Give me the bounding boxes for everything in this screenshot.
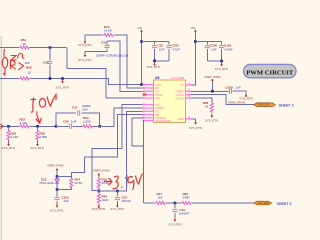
power VIN 1 <box>137 26 143 34</box>
node R38 tap <box>36 125 39 128</box>
ground R38 <box>31 142 44 150</box>
node C34 tap <box>116 190 119 193</box>
U9 left pin stubs <box>143 85 154 121</box>
wire VIN2 rail <box>195 41 221 43</box>
svg-text:50V: 50V <box>83 108 88 112</box>
svg-text:1.21K: 1.21K <box>20 121 28 125</box>
resistor R19 <box>97 177 109 191</box>
wire R82 to tag <box>192 202 254 204</box>
wire pin SHUTDOWN long vertical <box>143 121 144 203</box>
U9 right pin stubs <box>186 85 192 119</box>
svg-text:U9: U9 <box>155 76 159 80</box>
resistor R22 <box>19 118 30 128</box>
capacitor C34 <box>115 191 131 204</box>
svg-text:1.00K: 1.00K <box>83 120 91 124</box>
off-page tag CUR_SENSE <box>254 201 272 205</box>
wire R17 to R82 <box>166 202 181 204</box>
node C33 tap <box>174 202 177 205</box>
svg-text:OUT B: OUT B <box>176 96 184 100</box>
power VIN 2 <box>191 26 197 34</box>
resistor R28 <box>19 65 32 80</box>
wire pin SD fan <box>71 115 142 177</box>
node bypass rail 2 gnd <box>220 60 223 63</box>
wire VC pin riser <box>191 84 195 86</box>
svg-text:4.99K: 4.99K <box>40 135 48 139</box>
wire main to COMP pin <box>93 108 143 126</box>
wire pin COSLIM jog <box>132 118 144 146</box>
label PWM_DRIVE <box>228 101 246 105</box>
node VIN1 pin1 <box>140 83 143 86</box>
svg-text:.1UF: .1UF <box>210 47 217 51</box>
node VIN1 rail <box>140 40 143 43</box>
svg-text:SHEET 2: SHEET 2 <box>279 103 294 107</box>
node top-C36 <box>49 46 52 49</box>
svg-text:SHUTDOWN: SHUTDOWN <box>155 119 171 123</box>
svg-text:PWM_DRIVE: PWM_DRIVE <box>228 101 246 105</box>
svg-text:100PF CCR09CG101J9: 100PF CCR09CG101J9 <box>96 54 129 58</box>
resistor R30 <box>82 116 93 128</box>
svg-text:.1UF: .1UF <box>63 199 70 203</box>
svg-text:UCC2808: UCC2808 <box>171 76 185 80</box>
svg-text:*VIN: *VIN <box>155 83 161 87</box>
svg-text:1000PF: 1000PF <box>179 211 190 215</box>
feedback node 2 <box>98 125 101 128</box>
op-amp U1 PWM controller U9 body <box>154 76 186 122</box>
svg-text:SYS_RTN: SYS_RTN <box>78 58 91 62</box>
svg-text:SHEET 3: SHEET 3 <box>277 202 292 206</box>
capacitor C106 <box>205 42 218 62</box>
svg-text:C39: C39 <box>63 120 69 124</box>
svg-text:SYS_RTN: SYS_RTN <box>50 208 63 212</box>
svg-text:CUR_SNS: CUR_SNS <box>257 202 269 205</box>
wire D12 bottom rail <box>57 188 71 190</box>
capacitor C36 <box>25 48 53 79</box>
page border left <box>0 36 2 240</box>
resistor R54 <box>70 177 83 188</box>
wire pin CS- fan <box>92 105 142 191</box>
svg-text:VIN: VIN <box>137 26 142 30</box>
svg-text:CS+: CS+ <box>155 96 161 100</box>
ground bypass rail 1 <box>147 62 160 69</box>
wire R22 to node <box>30 125 56 127</box>
svg-text:1.21K: 1.21K <box>11 135 19 139</box>
svg-text:R28: R28 <box>26 65 32 69</box>
wire top rail to R53 <box>0 47 19 49</box>
svg-text:PWM_DRV: PWM_DRV <box>258 104 271 107</box>
off-page tag PWM_DRV <box>254 103 275 107</box>
svg-text:SYS_RTN: SYS_RTN <box>31 146 44 150</box>
svg-text:SYS_RTN: SYS_RTN <box>147 65 160 69</box>
wire C108 to ground <box>233 91 246 93</box>
svg-text:10: 10 <box>23 42 27 46</box>
U9 right pin numbers <box>188 84 191 120</box>
ground bypass rail 2 <box>215 62 228 71</box>
svg-text:240K: 240K <box>183 195 190 199</box>
wire VIN2 down to VC pin <box>191 34 195 85</box>
svg-text:SYS_RTN: SYS_RTN <box>189 126 202 130</box>
svg-text:VREF_PWM: VREF_PWM <box>47 164 64 168</box>
ground R81 <box>205 114 218 123</box>
svg-text:VREF_PWM: VREF_PWM <box>204 75 221 79</box>
svg-text:SYS_RTN: SYS_RTN <box>2 146 15 150</box>
main wire left segment <box>0 125 19 127</box>
wire R53 to corner <box>30 47 67 49</box>
ground for C31 <box>78 53 91 62</box>
feedback box top branch wire <box>56 113 100 126</box>
resistor R38 <box>36 126 47 142</box>
svg-text:.1UF: .1UF <box>235 86 242 90</box>
wire OUT B to R81 <box>191 98 212 103</box>
svg-text:GND: GND <box>178 117 184 121</box>
node bottom-C36 <box>49 77 52 80</box>
capacitor C31 <box>96 41 129 58</box>
svg-text:VIN: VIN <box>191 26 196 30</box>
svg-text:SYS_RTN: SYS_RTN <box>92 207 105 211</box>
svg-text:PWM CIRCUIT: PWM CIRCUIT <box>246 69 294 76</box>
node R26 tap <box>7 125 10 128</box>
handwriting red annotation top-left <box>3 49 25 75</box>
ground C105 <box>50 204 63 213</box>
wire bottom rail to R28 <box>0 78 19 80</box>
wire C32 C107 bottom rail <box>155 60 170 62</box>
capacitor C105 <box>54 190 69 204</box>
node VIN2 rail <box>194 40 197 43</box>
resistor R17 <box>155 192 166 205</box>
svg-text:100: 100 <box>158 195 163 199</box>
capacitor C104 <box>219 42 233 62</box>
handwriting red 3.19V <box>104 174 143 191</box>
node bottom-gnd <box>61 77 64 80</box>
svg-text:102K: 102K <box>102 198 109 202</box>
svg-text:C31: C31 <box>101 41 107 45</box>
capacitor C37 <box>72 104 91 115</box>
svg-text:1K: 1K <box>205 104 209 108</box>
resistor R26 <box>7 126 18 142</box>
ground R34 <box>92 205 105 212</box>
capacitor C108 <box>226 86 242 94</box>
svg-text:VREF_PWM: VREF_PWM <box>93 169 110 173</box>
resistor R16 <box>103 25 114 37</box>
wire R16 to chip pin2 <box>114 35 143 88</box>
resistor R53 <box>19 38 30 49</box>
capacitor C107 <box>166 42 180 61</box>
svg-text:CT: CT <box>155 90 159 94</box>
wire VIN1 down to pin1 <box>141 34 143 85</box>
svg-text:SYS_RTN: SYS_RTN <box>168 222 181 226</box>
off-page chevron main wire <box>0 124 4 129</box>
svg-text:6.8UF: 6.8UF <box>225 47 233 51</box>
wire D12 top rail <box>57 177 71 179</box>
power VREF_PWM 1 <box>47 164 64 173</box>
wire VREF pin row <box>191 83 228 92</box>
svg-text:4.7UF: 4.7UF <box>172 47 180 51</box>
node D12 bottom <box>56 188 59 191</box>
ground C33 <box>168 218 181 227</box>
feedback node 1 <box>55 125 58 128</box>
wire C106 C104 bottom rail <box>207 60 221 62</box>
wire bottom rail to R17 <box>144 202 156 204</box>
svg-text:C37: C37 <box>72 106 78 110</box>
svg-text:SYS_RTN: SYS_RTN <box>215 67 228 71</box>
ground C108 <box>239 93 252 100</box>
title block PWM CIRCUIT <box>244 64 296 77</box>
label SHEET 3 <box>277 202 292 206</box>
power VREF_PWM 3 <box>204 75 221 83</box>
node D12 top <box>56 175 59 178</box>
ground U9 GND <box>189 120 202 129</box>
svg-text:VC: VC <box>180 83 184 87</box>
svg-text:.047UF: .047UF <box>121 199 131 203</box>
svg-text:C36: C36 <box>43 61 49 65</box>
svg-text:.1UF: .1UF <box>158 47 165 51</box>
capacitor C33 <box>172 203 189 218</box>
node bypass rail gnd <box>153 60 156 63</box>
wire VIN1 rail <box>142 41 170 43</box>
label SHEET 2 <box>279 103 294 107</box>
svg-text:SYS_RTN: SYS_RTN <box>56 86 69 90</box>
annotation red x on SYNC pin <box>143 93 146 96</box>
resistor R82 <box>181 192 192 205</box>
resistor R34 <box>97 191 108 205</box>
node R19 R34 <box>98 190 101 193</box>
resistor R81 <box>203 101 213 113</box>
svg-text:.1UF: .1UF <box>70 120 77 124</box>
svg-text:22.6K: 22.6K <box>75 181 83 185</box>
wire gnd to R16 <box>85 35 103 40</box>
wire top rail riser to pin5 <box>67 48 143 99</box>
wire VREF to D12 rail <box>56 172 58 189</box>
svg-text:SYS_RTN: SYS_RTN <box>110 207 123 211</box>
svg-text:*VREF: *VREF <box>175 89 184 93</box>
wire C31 top to chip pin3 <box>107 41 143 91</box>
svg-text:SYS_RTN: SYS_RTN <box>205 118 218 122</box>
ground R26 <box>2 142 15 150</box>
svg-text:C108: C108 <box>226 86 234 90</box>
ground for R16 <box>78 40 91 47</box>
svg-text:14.0K: 14.0K <box>104 28 112 32</box>
svg-text:PDLL4148: PDLL4148 <box>40 181 55 185</box>
power VREF_PWM 2 <box>93 169 110 178</box>
wire node to C34 and pin <box>92 111 142 191</box>
ground bottom rail <box>56 79 69 90</box>
node VREF riser <box>211 90 214 93</box>
capacitor C39 <box>56 120 82 129</box>
wire R28 to chip pin1 <box>30 79 143 85</box>
handwriting red 5.0V <box>31 95 57 124</box>
svg-text:10: 10 <box>28 70 32 74</box>
wire GND pin <box>191 119 196 121</box>
wire OUT A to tag <box>191 95 254 105</box>
U9 right pin labels <box>175 83 184 121</box>
U9 left pin numbers <box>142 83 145 121</box>
capacitor C32 <box>152 42 165 61</box>
diode D12 <box>40 177 60 185</box>
wire C31 bottom to ground <box>85 52 107 54</box>
ground C34 <box>110 204 123 212</box>
svg-text:SYS_RTN: SYS_RTN <box>78 43 91 47</box>
U9 left pin labels <box>155 83 171 123</box>
